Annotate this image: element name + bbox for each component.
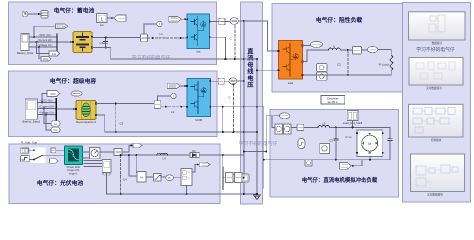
buck converter U3 (278, 41, 304, 86)
node dot bottom rail at bus (243, 193, 245, 195)
svg-text:电气仔：直流电机模拟冲击负载: 电气仔：直流电机模拟冲击负载 (302, 176, 378, 184)
svg-text:数据展示: 数据展示 (432, 41, 443, 45)
wire converter2 bottom out crossing to bus (210, 107, 257, 132)
wire top rail to bus (238, 20, 267, 22)
svg-text:sat: sat (100, 23, 104, 27)
wire clock to To-File (28, 13, 41, 15)
svg-text:L3: L3 (322, 121, 326, 125)
wire cluster to sensor sq (291, 126, 297, 128)
wire to Isc tag (44, 109, 51, 124)
inductor L1 dashed wire (148, 32, 188, 39)
wire b2 to bus (242, 177, 244, 179)
wire to SOCsc tag (42, 94, 47, 103)
scope oval 2 (229, 78, 237, 84)
wire pi to pwm (174, 177, 182, 179)
svg-text:Battery_Data: Battery_Data (17, 51, 34, 55)
battery block B1 (72, 32, 93, 53)
svg-text:实时数据展示: 实时数据展示 (426, 86, 442, 90)
PI oval block (166, 175, 174, 181)
inductor L2 dashed wire (161, 106, 187, 114)
svg-text:C: C (230, 37, 233, 41)
svg-text:电气仔：阻性负载: 电气仔：阻性负载 (316, 16, 363, 24)
wire DC bus positive vertical (243, 21, 245, 194)
svg-text:电气仔：光伏电池: 电气仔：光伏电池 (37, 179, 84, 187)
node junction dots sc wires (41, 101, 43, 103)
capacitor C1 (104, 37, 108, 49)
node dots on crossing wire (222, 106, 224, 108)
small tag left of meter (231, 175, 237, 182)
bus selector bar 2 (56, 98, 57, 121)
scope preview 2 (409, 58, 463, 91)
measurement block 2 (218, 78, 224, 84)
goto tag sat (114, 15, 126, 21)
svg-text:R-Load: R-Load (379, 63, 389, 67)
wire L to junction (340, 49, 352, 51)
inductor L3 (318, 121, 329, 127)
node dot minus tap (256, 69, 258, 71)
wire bus bar to supercap (57, 108, 76, 110)
Battery_Data1 scope block (22, 99, 40, 124)
powergui Discrete block (321, 96, 345, 105)
wire PV minus bottom rail (107, 172, 244, 194)
node area: battery subsystem panel (9, 2, 217, 65)
inductor L4 (157, 153, 168, 160)
svg-text:L2: L2 (171, 110, 175, 114)
capacitor C5 (115, 103, 124, 134)
svg-text:C3: C3 (329, 139, 333, 143)
goto tag PVpwm (199, 162, 210, 167)
goto tag speed (339, 162, 351, 169)
wire converter bottom out (210, 37, 226, 59)
node dot at C2 top (347, 49, 349, 51)
node dot on minus rail (225, 58, 227, 60)
svg-text:C4: C4 (123, 178, 127, 182)
node dot bus p2 top (243, 80, 245, 82)
node dots on minus rail 2 (222, 131, 224, 133)
scope oval (230, 18, 238, 25)
wire gauge to goto square (100, 151, 114, 153)
svg-text:L4: L4 (163, 156, 167, 160)
saturation block (154, 173, 162, 181)
wire out1 to right (107, 17, 114, 19)
From tag batPWM (169, 17, 182, 23)
wire supercap plus rail (96, 103, 154, 105)
clock block (22, 11, 28, 17)
svg-text:Ibat: Ibat (52, 53, 56, 56)
gauge circle block (305, 160, 312, 166)
svg-text:C1: C1 (100, 41, 104, 45)
wire SOC sc (37, 101, 55, 103)
wire switch to PV (46, 154, 65, 156)
vertical selector bar right (222, 167, 223, 191)
node area: scopes column panel (403, 3, 471, 203)
converter U1 (battery half-bridge) (186, 14, 210, 54)
TITLES (37, 7, 455, 188)
wire motor right lower (357, 141, 390, 160)
svg-text:load: load (288, 81, 294, 85)
wire bus to resistive load minus (257, 69, 279, 71)
irradiance const block (51, 148, 56, 153)
node area: resistive load panel (272, 4, 405, 93)
oval tag Vdc motor (279, 113, 290, 119)
To-File block (41, 11, 48, 19)
measurement block m2 (284, 124, 292, 134)
capacitor C2 (337, 50, 349, 76)
wire square to tag (122, 146, 133, 153)
capacitor C4 (120, 154, 127, 195)
capacitor motor right (388, 139, 392, 141)
svg-text:bat: bat (196, 50, 200, 54)
wire sensor to meter 2 (158, 96, 171, 101)
wire drop2 to mppt block (135, 155, 138, 172)
scope preview 1 (409, 12, 466, 45)
wire DC bus negative vertical (256, 59, 258, 194)
node dot plus feed (265, 151, 267, 153)
wire port2 up to L rail (303, 50, 329, 61)
wire to Vsc tag (46, 115, 51, 130)
wire motor bottom stub (369, 157, 371, 160)
constant block out1 (97, 14, 108, 27)
converter U2 (supercap half-bridge) (186, 79, 211, 122)
wire bus to resistive load plus (244, 21, 279, 51)
svg-text:控制模块: 控制模块 (431, 138, 442, 142)
wire SOC (29, 36, 56, 38)
From tag SOCbat (56, 24, 69, 29)
manual switch white area (31, 148, 46, 163)
supercapacitor block SC1 (75, 100, 97, 123)
wire sensor to L3 (304, 126, 318, 128)
svg-text:<Current (A)>: <Current (A)> (39, 106, 55, 109)
wire to Ibat tag (37, 42, 50, 54)
svg-text:Imppt 1: Imppt 1 (69, 171, 78, 175)
oval tag Iload (361, 47, 377, 53)
wire into switch top (29, 149, 34, 151)
wire supercap minus rail (96, 115, 257, 132)
measurement square mid (320, 144, 330, 154)
svg-text:<SOC (%)>: <SOC (%)> (39, 34, 52, 37)
node area: DC motor load panel (270, 110, 399, 198)
voltage meter block on bus (242, 174, 249, 182)
step source block (21, 156, 30, 162)
goto tag Isc (51, 121, 60, 126)
node dot at C3 (335, 126, 337, 128)
scope preview 4 (411, 154, 465, 196)
node area: photovoltaic subsystem panel (9, 144, 220, 204)
goto tag SOCsc (47, 91, 60, 97)
wire bus crossing extension to motor minus drop (257, 107, 357, 188)
wire to scope oval 2 (224, 80, 229, 82)
goto tag Vbat (41, 57, 51, 62)
svg-text:M: M (368, 142, 371, 146)
wire diode to bus (199, 154, 244, 156)
meter circle (157, 21, 162, 26)
wire plus drop to oval feed (266, 116, 280, 152)
From tag scPWM (167, 83, 180, 88)
wire R-Load bottom (390, 70, 392, 75)
scope preview 3 (409, 104, 464, 142)
svg-text:SC98: SC98 (195, 118, 202, 122)
wire builder down to rail (352, 121, 354, 128)
wire to Vbat tag (39, 47, 41, 59)
wire bar to b1 (224, 177, 226, 179)
svg-text:dc ma: dc ma (345, 136, 352, 139)
bus selector bar (56, 34, 57, 52)
DC link capacitor C6 (230, 26, 236, 61)
wire const to PV (56, 149, 65, 151)
wire pwm bottom to rail (186, 185, 188, 194)
svg-text:PI: PI (168, 176, 171, 180)
oval tag near supercap (71, 91, 82, 96)
wire tag to meter (237, 177, 243, 179)
wire bottom rail resistive (303, 74, 392, 76)
node area: DC bus panel (241, 2, 263, 204)
resistor R-Load (379, 55, 393, 70)
wire Current (29, 41, 56, 43)
inductor L (328, 44, 340, 50)
ground symbol (254, 195, 261, 200)
PWM generator block (181, 169, 192, 186)
oval tag Vload (303, 41, 323, 47)
svg-text:Vbat: Vbat (43, 58, 48, 61)
wire battery plus rail (92, 37, 141, 39)
node arrow into To-File (38, 13, 41, 15)
wire top rail 2 to bus (237, 80, 244, 82)
node dot ground junction (256, 193, 258, 195)
wire to scope oval (225, 21, 230, 23)
svg-text:学习不好的电气仔: 学习不好的电气仔 (239, 140, 278, 147)
wire sensor up to meter (144, 24, 157, 34)
label Load_Add_Sub8 (343, 111, 363, 125)
current sensor block load (352, 47, 361, 55)
wire converter2 top out (210, 80, 218, 82)
svg-text:电气仔：超级电容: 电气仔：超级电容 (50, 77, 97, 85)
svg-text:C5: C5 (120, 122, 124, 126)
svg-text:实时数据模块: 实时数据模块 (427, 192, 443, 196)
DC machine block M1 (356, 130, 383, 157)
svg-text:D1: D1 (192, 149, 196, 153)
node area: supercapacitor subsystem panel (9, 71, 218, 137)
step source vase (298, 139, 305, 149)
measurement block vB (317, 72, 328, 80)
node dot minus drop (263, 159, 265, 161)
wire PV to gauge (83, 152, 90, 158)
goto tag Ibat (49, 51, 60, 56)
wire tag to converter2 gate (180, 85, 187, 87)
sensor square (297, 124, 304, 130)
PV array block (65, 146, 83, 175)
goto tag Vsc (51, 127, 60, 132)
svg-text:C: C (229, 96, 232, 100)
node dots on pv rail (222, 154, 224, 156)
svg-text:L1: L1 (160, 32, 164, 36)
DC link capacitor C7 (229, 83, 235, 133)
wire pwm to goto tag (192, 165, 199, 173)
wires PV to scope (84, 161, 102, 167)
filter block b2 (235, 173, 242, 183)
wire mppt to sat (146, 176, 154, 178)
current sensor block (141, 34, 148, 42)
capacitor C3 (329, 127, 338, 160)
wire drop to mppt block (129, 155, 137, 176)
Battery_Data scope block (17, 33, 34, 55)
wire battery minus rail (92, 48, 257, 60)
goto tag pv (49, 159, 58, 164)
node dot bus top left (243, 20, 245, 22)
svg-text:C2: C2 (337, 62, 341, 66)
node dot feed1 (243, 150, 245, 152)
svg-text:R_Add_Sub: R_Add_Sub (21, 140, 38, 144)
wire converter top out (210, 21, 219, 23)
measurement block (219, 18, 225, 24)
svg-text:直流母线电压: 直流母线电压 (247, 48, 254, 90)
meter circle 2 (171, 93, 176, 98)
wire SOC branch up to goto tag (34, 26, 56, 37)
svg-text:<Current (A)>: <Current (A)> (37, 39, 53, 42)
current sensor block 2 (154, 101, 161, 109)
measurement block vA (317, 64, 328, 72)
wire Voltage (29, 46, 56, 48)
filter block b1 (225, 173, 233, 183)
goto square block (114, 148, 122, 155)
wire to R-Load top (378, 50, 392, 56)
svg-text:学习不好的电气仔: 学习不好的电气仔 (132, 54, 171, 61)
gauge block (90, 148, 100, 159)
manual switch (33, 149, 45, 160)
wire bus selector to battery (58, 41, 73, 43)
svg-text:电气仔：蓄电池: 电气仔：蓄电池 (54, 7, 95, 15)
node junction dots on measurement wires (33, 36, 35, 38)
measurement block m1 (275, 124, 283, 134)
wire motor right side top (389, 127, 391, 138)
svg-text:Supercapacitor1: Supercapacitor1 (76, 120, 97, 124)
MPPT block (137, 172, 146, 183)
wire into switch bottom (29, 159, 33, 161)
wire Voltage sc (37, 114, 55, 116)
svg-text:SOCbat: SOCbat (56, 25, 66, 29)
wire bottom rail into ground (244, 193, 257, 196)
node dot rail (135, 154, 137, 156)
svg-text:学习不好的电气仔: 学习不好的电气仔 (416, 46, 455, 53)
measurement scope small (102, 160, 111, 177)
svg-text:1e-05 s.: 1e-05 s. (327, 100, 338, 104)
svg-text:Battery_Data1: Battery_Data1 (22, 120, 40, 124)
wire PV plus rail (122, 154, 190, 156)
wire rail tap down to bar (222, 155, 224, 166)
wire motor to speed tag (351, 160, 362, 166)
wire L3 to motor rail (330, 126, 390, 128)
wire tag to converter gate (181, 18, 187, 20)
wire sat to pi oval (161, 176, 166, 178)
diode D1 (190, 149, 199, 158)
From tag PVtag (133, 143, 142, 147)
node dot minus rail at bus (243, 58, 245, 60)
wire oval down to measurement cluster (272, 116, 280, 128)
wire Current sc (37, 108, 55, 110)
wire bus to motor panel feed 1 (244, 151, 266, 153)
signal builder block (21, 148, 29, 153)
svg-text:SOC: SOC (50, 93, 56, 96)
